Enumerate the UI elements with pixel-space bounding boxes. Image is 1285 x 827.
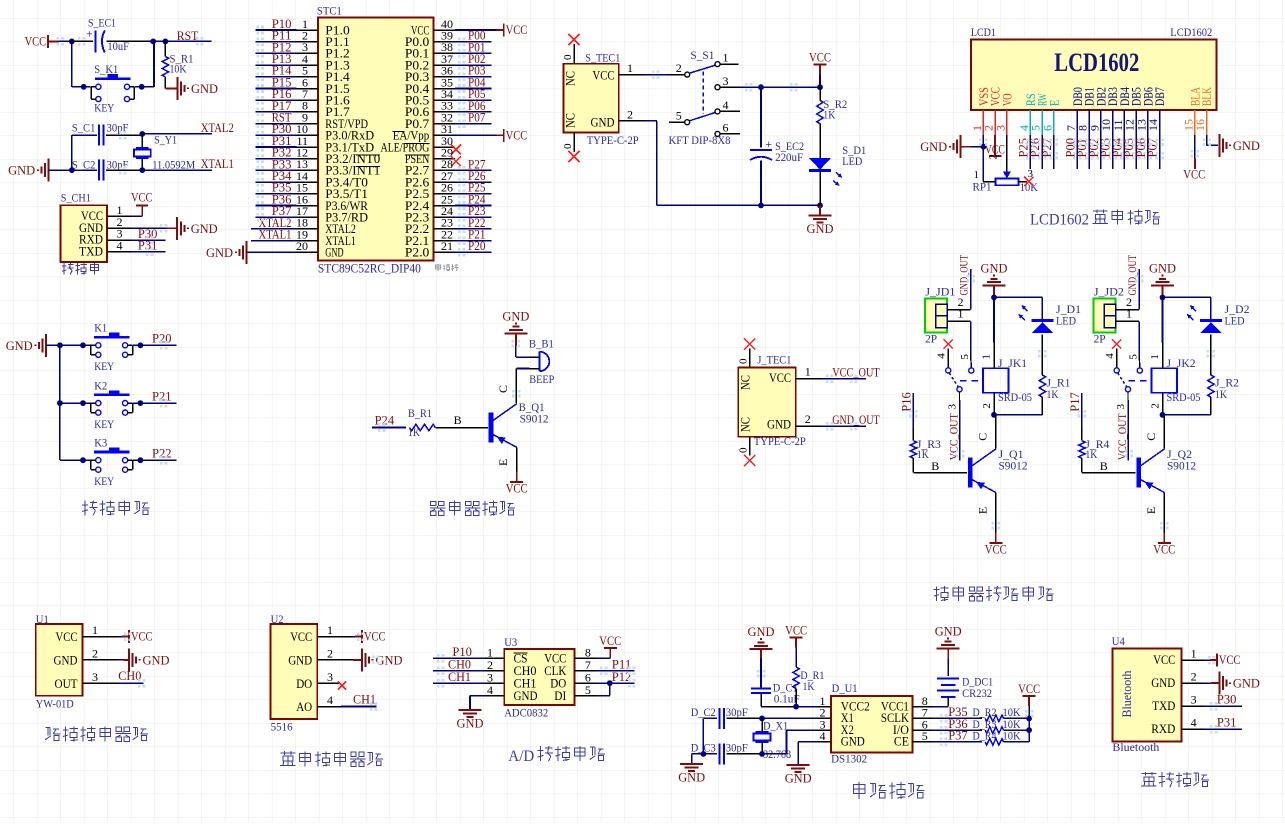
wire: [256, 88, 297, 90]
svg-text:6: 6: [1040, 125, 1054, 131]
svg-text:21: 21: [441, 239, 453, 253]
net label P21: [468, 227, 486, 242]
power port VCC: [1183, 167, 1205, 182]
svg-text:GND: GND: [143, 652, 170, 667]
power port GND: [1219, 134, 1260, 157]
svg-text:GND: GND: [8, 163, 35, 178]
junction: [139, 167, 145, 173]
wire: [970, 321, 973, 368]
svg-text:S_K1: S_K1: [94, 62, 118, 76]
wire: [455, 216, 492, 218]
wire: [106, 40, 165, 42]
wire: [913, 472, 967, 474]
pin 5: [959, 354, 971, 360]
svg-text:XTAL1: XTAL1: [259, 227, 292, 242]
pin 3: [82, 670, 118, 684]
wire: [131, 239, 165, 241]
svg-text:GND: GND: [191, 221, 218, 236]
pin 29 PSEN: [405, 146, 455, 167]
pin 2: [947, 295, 971, 310]
svg-text:1K: 1K: [1085, 447, 1097, 461]
wire: [1138, 321, 1141, 368]
svg-text:VCC_OUT: VCC_OUT: [1117, 413, 1129, 460]
net label XTAL1: [201, 156, 234, 171]
wire: [71, 41, 73, 86]
wire: [455, 29, 497, 31]
pin 2: [796, 412, 823, 426]
power port GND: [206, 241, 247, 264]
junction: [80, 457, 86, 463]
pin 3 P1.2: [297, 40, 350, 61]
svg-text:P37: P37: [948, 728, 968, 743]
net label P01: [468, 39, 486, 54]
wire: [247, 251, 297, 253]
svg-text:B: B: [1100, 459, 1108, 473]
title 液位检测模块: [45, 726, 148, 741]
wire: [131, 215, 142, 217]
svg-text:VCC: VCC: [1018, 681, 1040, 696]
wire: [455, 41, 492, 43]
pin 9 RST/VPD: [297, 110, 369, 130]
power port VCC: [1153, 533, 1175, 557]
svg-text:ADC0832: ADC0832: [504, 706, 548, 720]
power port GND: [807, 216, 834, 237]
pin 3: [485, 670, 505, 684]
capacitor D_C1: [751, 681, 800, 707]
svg-text:E: E: [1144, 507, 1158, 514]
pin 4: [935, 349, 948, 368]
resistor J_R4: [1079, 437, 1110, 473]
wire: [455, 64, 492, 66]
power port GND: [920, 135, 961, 158]
wire: [256, 76, 297, 78]
pin 4: [1104, 349, 1117, 368]
wire: [516, 356, 530, 358]
pin 6: [912, 717, 933, 731]
pin 6: [575, 670, 597, 684]
svg-text:TXD: TXD: [1152, 699, 1175, 713]
pin 2: [1116, 295, 1140, 310]
wire: [372, 427, 406, 429]
connector J_TEC1: [738, 353, 806, 449]
wire: [106, 134, 143, 136]
wire: [1029, 135, 1031, 169]
module U4: [1112, 634, 1182, 754]
svg-text:STC1: STC1: [317, 4, 342, 18]
svg-text:1: 1: [1126, 306, 1132, 320]
wire: [819, 74, 821, 87]
svg-text:GND: GND: [748, 624, 775, 639]
net label P23: [468, 203, 486, 218]
pin 27 P2.6: [405, 169, 455, 190]
power port VCC: [506, 472, 528, 496]
svg-text:VCC: VCC: [25, 33, 47, 48]
svg-text:4: 4: [327, 693, 333, 707]
pin 24 P2.3: [405, 204, 455, 225]
title 按键电路: [82, 500, 150, 515]
net label P07: [468, 110, 486, 125]
power port VCC: [985, 533, 1007, 557]
wire: [596, 670, 634, 672]
title 继电器控制电路: [934, 586, 1054, 601]
wire: [822, 378, 866, 380]
junction: [607, 680, 613, 686]
svg-text:VCC: VCC: [1153, 653, 1175, 667]
wire: [1004, 730, 1030, 742]
junction: [817, 203, 823, 209]
pin 4 RS: [1017, 93, 1038, 135]
svg-text:1K: 1K: [408, 425, 420, 439]
svg-text:3: 3: [1115, 404, 1127, 410]
svg-text:1: 1: [805, 365, 811, 379]
wire: [727, 717, 763, 719]
svg-text:20: 20: [296, 239, 308, 253]
svg-text:XTAL1: XTAL1: [201, 156, 234, 171]
label 下载口: [62, 263, 99, 275]
diode J_D1: [1019, 297, 1081, 333]
net label RST: [177, 28, 199, 43]
power port VCC: [1018, 681, 1040, 706]
svg-text:10K: 10K: [170, 62, 187, 76]
svg-text:GND: GND: [981, 261, 1008, 276]
wire: [1163, 414, 1211, 416]
wire: [256, 52, 297, 54]
net label XTAL2: [201, 120, 234, 135]
svg-text:VCC: VCC: [56, 630, 78, 644]
svg-text:CE: CE: [894, 735, 909, 749]
net label P36: [272, 191, 292, 206]
power port GND: [178, 77, 219, 100]
svg-text:P2.0: P2.0: [405, 246, 429, 260]
svg-text:U3: U3: [504, 635, 517, 649]
resistor J_R3: [910, 437, 941, 473]
junction: [57, 342, 63, 348]
pin 4: [107, 238, 131, 252]
svg-text:4: 4: [1191, 716, 1197, 730]
capacitor S_C2: [72, 157, 129, 180]
pin 10 DB3: [1099, 87, 1120, 135]
svg-text:P17: P17: [1067, 392, 1082, 412]
wire: [433, 657, 485, 659]
pin 4: [317, 693, 341, 707]
svg-text:3: 3: [993, 125, 1007, 131]
pin 8 DB1: [1076, 87, 1097, 135]
junction: [758, 84, 764, 90]
svg-text:KEY: KEY: [94, 101, 114, 115]
svg-text:0: 0: [738, 447, 750, 453]
wire: [455, 111, 492, 113]
svg-text:S9012: S9012: [520, 411, 549, 425]
pin 15 BLA: [1181, 87, 1202, 135]
svg-text:2: 2: [981, 403, 993, 409]
net label P11: [272, 28, 292, 43]
net label VCC_OUT: [832, 364, 880, 379]
svg-text:KEY: KEY: [94, 359, 114, 373]
svg-text:5: 5: [922, 729, 928, 743]
junction: [138, 342, 144, 348]
net label P12: [272, 39, 292, 54]
wire: [645, 74, 668, 76]
pin 1: [317, 623, 353, 637]
wire: [822, 425, 866, 427]
net label P25: [1015, 138, 1030, 158]
wire: [72, 135, 97, 170]
wire: [1163, 296, 1211, 298]
net label P02: [1086, 138, 1101, 158]
svg-text:KFT DIP-8X8: KFT DIP-8X8: [669, 133, 731, 147]
wire: [1112, 135, 1114, 169]
wire: [1041, 135, 1043, 169]
wire: [497, 29, 504, 31]
pin 3 VO: [993, 93, 1014, 134]
pin 7 DB0: [1064, 87, 1085, 135]
power port GND: [981, 261, 1008, 286]
wire: [72, 40, 93, 42]
module U2: [271, 612, 318, 734]
svg-text:1K: 1K: [1047, 387, 1059, 401]
pin 26 P2.5: [405, 181, 455, 202]
wire: [433, 670, 485, 672]
svg-text:Bluetooth: Bluetooth: [1120, 670, 1134, 718]
pin 4: [1181, 716, 1203, 730]
net label VCC_OUT: [1117, 413, 1129, 460]
svg-text:GND: GND: [1233, 676, 1260, 691]
power port GND: [678, 764, 705, 785]
junction: [57, 400, 63, 406]
junction: [81, 84, 87, 90]
power port GND: [8, 159, 49, 182]
svg-text:J_JD1: J_JD1: [925, 285, 955, 299]
wire: [1127, 392, 1129, 460]
power port GND: [748, 624, 775, 649]
wire: [1194, 135, 1196, 169]
pin 7 P1.6: [297, 87, 350, 108]
connector S_CH1: [61, 191, 108, 263]
transistor B_Q1: [491, 400, 549, 448]
wire: [961, 146, 984, 148]
pin label E: [976, 507, 990, 514]
net label P11: [612, 656, 632, 671]
wire: [995, 415, 997, 449]
svg-text:GND: GND: [841, 735, 865, 749]
svg-text:K1: K1: [94, 321, 107, 335]
wire: [994, 414, 1042, 416]
net label P15: [272, 74, 292, 89]
net label P37: [948, 728, 968, 743]
buzzer B_B1: [529, 337, 555, 387]
pin 35 P0.4: [405, 75, 455, 96]
wire: [1053, 135, 1055, 169]
pin 36 P0.3: [405, 64, 455, 85]
svg-text:4: 4: [723, 98, 729, 112]
overline INT0: [356, 154, 380, 156]
wire: [256, 181, 297, 183]
svg-text:B: B: [931, 459, 939, 473]
svg-text:VCC: VCC: [593, 69, 615, 83]
svg-text:GND: GND: [678, 770, 705, 785]
power port GND: [6, 334, 47, 357]
svg-text:CH1: CH1: [448, 669, 471, 684]
power port GND: [935, 624, 962, 649]
net label P03: [1098, 138, 1113, 158]
wire: [516, 369, 529, 404]
wire: [692, 754, 704, 764]
pin 5: [575, 683, 597, 697]
svg-text:3: 3: [327, 670, 333, 684]
svg-text:3: 3: [1191, 693, 1197, 707]
pin 2: [485, 658, 505, 672]
net label XTAL1: [259, 227, 292, 242]
pin 0: [562, 44, 574, 64]
pin 4: [817, 729, 831, 743]
net label P25: [468, 180, 486, 195]
net label P30: [272, 121, 292, 136]
junction: [138, 400, 144, 406]
wire: [947, 649, 949, 677]
pin 37 P0.2: [405, 52, 455, 73]
svg-text:E: E: [496, 459, 510, 466]
wire: [1138, 269, 1140, 310]
connector J_JD1: [925, 285, 955, 346]
net label P03: [468, 63, 486, 78]
wire: [60, 344, 91, 346]
svg-text:1: 1: [627, 61, 633, 75]
pin 1: [82, 623, 118, 637]
power port GND: [1219, 672, 1260, 695]
power port VCC: [809, 49, 831, 74]
svg-text:C: C: [496, 385, 510, 393]
svg-text:LED: LED: [1225, 314, 1245, 328]
net label P22: [468, 215, 486, 230]
net label P06: [1133, 138, 1148, 158]
wire: [933, 717, 982, 719]
svg-text:3: 3: [947, 404, 959, 410]
junction: [991, 412, 997, 418]
title A/D转换电路: [508, 746, 605, 765]
wire: [761, 706, 796, 708]
connector J_JD2: [1094, 285, 1124, 346]
svg-text:LCD1: LCD1: [971, 25, 996, 39]
wire: [1081, 393, 1083, 441]
wire: [118, 636, 129, 638]
pin 32 P0.7: [405, 110, 455, 130]
net label CH1: [353, 692, 376, 707]
junction: [1026, 727, 1032, 733]
wire: [256, 64, 297, 66]
svg-text:0: 0: [562, 54, 574, 60]
title 蓝牙模块: [1141, 772, 1209, 787]
pin 0: [562, 132, 574, 152]
pin 39 P0.0: [405, 29, 455, 50]
module U1: [36, 612, 83, 711]
svg-text:D_C2: D_C2: [691, 705, 716, 719]
wire: [60, 402, 91, 404]
svg-text:Bluetooth: Bluetooth: [1112, 740, 1159, 754]
svg-text:GND: GND: [288, 654, 312, 668]
wire: [1163, 415, 1165, 449]
capacitor S_EC1: [86, 16, 129, 54]
pin 8: [575, 646, 597, 660]
wire: [762, 717, 817, 719]
pin 11 DB4: [1111, 87, 1132, 135]
crystal S_Y1: [134, 133, 196, 172]
svg-text:NC: NC: [739, 417, 753, 432]
wire: [645, 121, 819, 206]
net label GND_OUT: [959, 255, 971, 296]
no-ERC marker: [568, 34, 579, 45]
svg-text:1K: 1K: [1215, 387, 1227, 401]
svg-text:VCC: VCC: [131, 629, 153, 644]
no-ERC marker: [451, 145, 461, 155]
svg-text:+: +: [765, 137, 772, 151]
wire: [994, 296, 1042, 298]
pin label B: [454, 413, 462, 427]
power port VCC: [985, 135, 1005, 157]
pin 3: [1181, 693, 1203, 707]
wire: [740, 86, 820, 88]
pin 4: [485, 683, 505, 697]
wire: [1100, 135, 1102, 169]
svg-text:GND: GND: [376, 652, 403, 667]
pin label C: [496, 385, 510, 393]
pin 1: [619, 61, 645, 75]
capacitor S_EC2: [750, 87, 804, 205]
pin 1: [1116, 306, 1140, 321]
svg-text:KEY: KEY: [94, 417, 114, 431]
wire: [133, 402, 176, 404]
resistor D_R3: [973, 717, 1021, 734]
net label P21: [152, 388, 172, 403]
pin 5: [912, 729, 933, 743]
power port VCC: [497, 127, 528, 142]
wire: [256, 158, 297, 160]
pin 2 P1.1: [297, 29, 350, 50]
svg-text:SRD-05: SRD-05: [998, 390, 1032, 404]
net label P16: [898, 392, 913, 412]
net label GND_OUT: [1127, 255, 1139, 296]
net label P31: [1217, 715, 1237, 730]
wire: [118, 682, 143, 684]
wire: [46, 344, 60, 346]
crystal D_X1: [754, 718, 792, 761]
wire: [596, 657, 610, 659]
net label P32: [272, 145, 292, 160]
wire: [59, 40, 72, 42]
svg-text:GND: GND: [785, 771, 812, 786]
svg-text:1K: 1K: [803, 679, 815, 693]
svg-text:2P: 2P: [1094, 332, 1106, 346]
pin 31 EA/Vpp: [393, 122, 455, 143]
pin 8 P1.7: [297, 99, 350, 120]
junction: [150, 39, 156, 45]
svg-text:1: 1: [1149, 354, 1161, 360]
wire: [516, 448, 518, 477]
wire: [106, 169, 143, 171]
potentiometer RP1: [973, 154, 1039, 194]
no-ERC marker: [1024, 177, 1033, 186]
junction: [701, 751, 707, 757]
power port VCC: [599, 633, 621, 658]
relay coil J_JK2: [1149, 343, 1200, 415]
pin 6 E: [1040, 99, 1061, 134]
key K1: [91, 321, 133, 374]
title 蜂鸣器电路: [430, 501, 515, 516]
key K2: [91, 378, 133, 431]
pin 2 VCC: [982, 87, 1003, 135]
svg-text:1: 1: [1191, 647, 1197, 661]
net label P36: [948, 716, 968, 731]
wire: [455, 205, 492, 207]
